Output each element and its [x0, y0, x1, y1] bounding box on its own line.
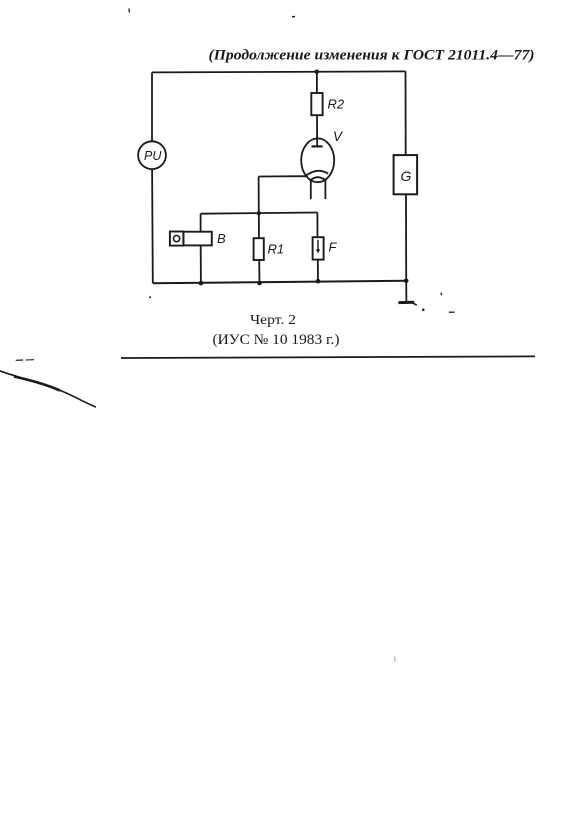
scan speck c mark — [441, 293, 442, 295]
scan speck top left — [128, 9, 131, 13]
horizontal rule — [121, 356, 535, 358]
svg-text:PU: PU — [144, 149, 162, 163]
tube V envelope — [301, 138, 334, 182]
meter PU — [138, 141, 166, 169]
tube V heater arc — [310, 177, 326, 181]
svg-text:G: G — [401, 168, 412, 184]
scan speck dash — [449, 311, 455, 313]
scan faint mark lower page — [394, 657, 397, 662]
wire F bottom lead — [317, 260, 319, 282]
scan stray curve — [0, 371, 96, 408]
node junction bottom B — [199, 281, 204, 286]
svg-text:R2: R2 — [328, 97, 345, 112]
wire B bottom lead — [200, 245, 202, 283]
node junction top R2 — [315, 70, 320, 75]
wire top bus — [152, 71, 406, 72]
scan speck dot — [422, 309, 425, 312]
svg-text:(Продолжение изменения к ГОСТ: (Продолжение изменения к ГОСТ 21011.4—77… — [209, 46, 535, 63]
resistor R2 — [311, 93, 322, 115]
resistor R1 — [254, 238, 264, 260]
wire bottom bus — [153, 281, 406, 283]
wire R2 top lead — [316, 72, 318, 93]
scan speck top middle — [292, 16, 295, 18]
sensor B end square — [170, 232, 184, 246]
ground — [398, 301, 414, 304]
svg-text:B: B — [217, 231, 226, 246]
wire right vertical lower — [405, 194, 407, 280]
node junction middle R1 — [257, 211, 261, 215]
tube V heater leg left — [310, 181, 312, 200]
svg-text:(ИУС № 10 1983 г.): (ИУС № 10 1983 г.) — [213, 332, 340, 348]
svg-text:F: F — [329, 240, 338, 255]
sensor B body — [183, 232, 211, 246]
wire left vertical upper — [151, 72, 153, 141]
wire left vertical lower — [151, 169, 154, 283]
wire F top lead — [316, 213, 318, 238]
tube V anode plate — [312, 145, 323, 147]
wire cathode side lead — [259, 175, 306, 177]
wire ground lead — [405, 281, 407, 302]
fuse F — [313, 237, 324, 259]
svg-text:R1: R1 — [268, 242, 285, 257]
wire middle bus — [201, 213, 318, 214]
svg-text:Черт. 2: Черт. 2 — [250, 312, 296, 327]
wire right vertical upper — [405, 71, 407, 155]
node junction bottom F — [316, 279, 321, 284]
wire cathode lead vertical — [258, 177, 260, 214]
tube V cathode arc — [304, 171, 328, 177]
fuse F arrow — [317, 240, 319, 251]
svg-text:V: V — [333, 129, 344, 144]
sensor B end circle — [174, 236, 180, 242]
wire B top lead — [200, 214, 202, 232]
node junction right bottom — [404, 279, 409, 284]
scan dash left margin — [16, 359, 23, 361]
wire R2 to tube anode — [316, 115, 318, 146]
wire R1 bottom lead — [258, 260, 260, 283]
generator G — [394, 155, 418, 194]
tube V heater leg right — [324, 180, 326, 199]
node junction bottom R1 — [257, 281, 262, 286]
wire R1 top lead — [258, 214, 260, 239]
scan speck below circuit — [149, 296, 151, 298]
